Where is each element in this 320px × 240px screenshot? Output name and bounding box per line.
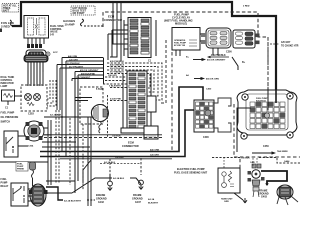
svg-text:G107: G107 [135, 201, 142, 204]
svg-text:OIL PRESSURE: OIL PRESSURE [1, 116, 19, 119]
svg-text:SWITCH: SWITCH [1, 121, 11, 124]
electric fuel pump sending unit label [174, 168, 208, 174]
thick wire bus2 into junction block left [40, 110, 196, 157]
svg-text:2 RED: 2 RED [1, 25, 11, 29]
horizontal wire junction y117 [44, 114, 70, 119]
relay connector face C2 [233, 30, 260, 48]
svg-text:A2 JA: A2 JA [148, 198, 155, 201]
wire trunk vertical joining rows [103, 58, 105, 85]
coil left [28, 18, 34, 35]
wire diag from C1 down [232, 57, 246, 70]
svg-text:C450: C450 [263, 145, 269, 148]
ECM dashed boundary top [103, 12, 268, 88]
svg-text:10 AMP: 10 AMP [65, 23, 75, 27]
wires into pump motor [70, 98, 92, 118]
lower ECM connector block [121, 71, 156, 133]
svg-text:150 BLK: 150 BLK [115, 157, 124, 159]
fuse GAUGES 10 AMP [63, 19, 103, 27]
dashed harness box mid [80, 87, 103, 124]
wire battery feed thick top [12, 2, 276, 95]
valve connector pins below [28, 38, 44, 44]
svg-text:C400: C400 [203, 136, 209, 139]
relay connector face C1 [201, 28, 232, 54]
svg-text:439 PNK/BLK: 439 PNK/BLK [110, 60, 124, 63]
arrow wire A to right y59 [186, 57, 226, 62]
svg-text:150 BLK: 150 BLK [112, 136, 121, 138]
svg-text:G403: G403 [261, 196, 268, 199]
svg-text:440 ORN/BLK: 440 ORN/BLK [110, 64, 125, 67]
ECM connector upper block [124, 18, 156, 58]
wires from upper ECM block going left/down [108, 2, 128, 61]
engine ground symbol [96, 159, 112, 204]
arrow wire B to right y78 [186, 74, 219, 81]
wires switch to connector [18, 136, 26, 146]
svg-text:917 PPL/WHT: 917 PPL/WHT [69, 66, 84, 68]
svg-text:TAN WIRE: TAN WIRE [277, 150, 288, 153]
diagonal wire top bottom-left [83, 160, 91, 183]
svg-text:G404: G404 [284, 160, 290, 163]
dashed drops into instrument cluster [47, 80, 56, 106]
svg-text:A 439 PNK: A 439 PNK [110, 98, 121, 101]
svg-text:108 GRY: 108 GRY [108, 75, 117, 77]
wires from round connector right [18, 128, 51, 146]
wire sweeping to frame ground [72, 178, 112, 193]
svg-text:CONNECTOR: CONNECTOR [122, 144, 139, 148]
wing bracket bottom right [214, 123, 231, 132]
indicator lamp module box with resistor [2, 90, 15, 110]
fuel pump oil pressure switch text [1, 112, 19, 124]
svg-text:TANK UNIT: TANK UNIT [221, 198, 233, 201]
oil pressure switch box [4, 131, 18, 157]
svg-text:439 PNK/BLK: 439 PNK/BLK [211, 54, 226, 57]
svg-text:MODULE): MODULE) [175, 22, 187, 26]
fuel pump motor pictorial [91, 105, 108, 134]
dashed boundary x166 [160, 40, 166, 103]
round connector assembly mid-left [24, 121, 44, 148]
svg-text:5 TAB: 5 TAB [96, 88, 103, 91]
dashed drops to assembly top [253, 158, 257, 166]
svg-text:416 DK GRN/WHT: 416 DK GRN/WHT [207, 59, 226, 62]
svg-text:465 DK GRN: 465 DK GRN [206, 78, 219, 81]
sending unit box [218, 168, 240, 193]
dashed tank boundary bottom right [234, 104, 300, 180]
wire into module from thick feed [275, 16, 277, 103]
svg-text:C200: C200 [226, 51, 232, 54]
svg-text:440 ORN: 440 ORN [68, 55, 78, 58]
svg-text:OR START: OR START [73, 12, 86, 15]
svg-text:120 GRY: 120 GRY [69, 59, 78, 61]
relay connector blob [29, 184, 48, 206]
svg-text:BLK/WHT: BLK/WHT [148, 203, 159, 205]
svg-text:C400: C400 [206, 88, 212, 91]
svg-text:FUEL PUMP: FUEL PUMP [1, 112, 15, 115]
svg-text:ECM: ECM [128, 141, 134, 145]
dashed bus line mid full width [44, 137, 162, 139]
svg-text:916 PPL/WHT: 916 PPL/WHT [110, 68, 125, 70]
svg-text:BATT: BATT [3, 9, 10, 12]
fuel pump relay box [11, 183, 28, 206]
arrow TAN at module bottom [252, 150, 288, 155]
tank indicator lamp text [1, 76, 15, 88]
dashed harness drop left of lower ECM [107, 95, 109, 137]
coil right [39, 18, 45, 35]
tank selector valve assembly box [24, 16, 64, 39]
svg-text:440 ORN: 440 ORN [150, 149, 160, 152]
dashed labels bottom right corner [212, 157, 300, 168]
prime connector symbol [30, 162, 36, 186]
svg-text:C304: C304 [28, 145, 34, 148]
tank unit ground label [221, 193, 247, 203]
svg-text:2 RED: 2 RED [243, 6, 250, 8]
svg-text:RELAY: RELAY [1, 185, 9, 188]
wire label stack mid-left [57, 58, 103, 157]
dashed wire labels to lower ECM [103, 63, 162, 100]
valve cross middle [35, 18, 38, 35]
junction block C2 center-right [194, 88, 231, 140]
dashed instrument box with gauges [21, 85, 47, 111]
svg-text:917 RED/BLK: 917 RED/BLK [110, 72, 124, 74]
fuel pump prime label [16, 162, 28, 172]
svg-text:120 TAN/WHT: 120 TAN/WHT [76, 76, 91, 79]
svg-text:120 GRY: 120 GRY [281, 42, 291, 44]
gauge circle-x left [25, 94, 32, 101]
small component box right of lower ECM [144, 126, 158, 139]
vertical drops mid column [75, 81, 78, 193]
svg-text:5-R: 5-R [50, 33, 54, 36]
wires relay to blob [28, 189, 32, 201]
svg-text:A2 JA BLK: A2 JA BLK [113, 177, 125, 180]
bulkhead connector C100 [24, 55, 48, 62]
wires from blob to right [46, 181, 95, 203]
frame ground center [132, 158, 143, 204]
wire fusible link squiggle [10, 20, 12, 26]
vertical bus wires left-center dropping [48, 117, 91, 206]
svg-text:FUEL GAGE SENDING UNIT: FUEL GAGE SENDING UNIT [174, 171, 208, 174]
svg-text:150 BLK: 150 BLK [241, 158, 250, 160]
svg-text:TO CHOKE HTR: TO CHOKE HTR [281, 46, 299, 48]
in-tank pump assembly pictorial [248, 164, 265, 197]
edge mark left [0, 29, 2, 33]
svg-text:GRD: GRD [224, 201, 229, 203]
svg-text:AT KEY ON: AT KEY ON [174, 44, 186, 47]
fuel pump relay text [1, 178, 9, 188]
wire from lamp box to dashed box [15, 95, 23, 97]
hot-at-all-times label box top-left [2, 4, 19, 13]
big module connector face bottom right [237, 90, 297, 148]
long dashed boundary vertical mid-right [171, 52, 173, 150]
svg-text:LAMP: LAMP [1, 85, 8, 88]
bottom right connector blob [277, 185, 298, 205]
svg-text:A2 JA BLK/WHT: A2 JA BLK/WHT [64, 200, 81, 203]
frame ground right label [258, 190, 269, 199]
svg-text:30 PNK/BLK: 30 PNK/BLK [67, 63, 80, 65]
svg-text:C203: C203 [28, 113, 34, 116]
splice symbol S217 [46, 52, 59, 56]
fuel pump cycle relay box [172, 28, 200, 51]
wires below valve connector [28, 61, 43, 85]
thick wire bus1 up to junction block top [40, 87, 203, 152]
svg-text:458 BLK/PNK: 458 BLK/PNK [81, 72, 95, 75]
wire label arrow 439 PNK under C1 [207, 54, 229, 58]
thick wires at sender top [261, 171, 287, 185]
svg-text:G102: G102 [98, 201, 105, 204]
wires cycle relay box to C1 [176, 34, 218, 56]
small resistor marks [27, 102, 34, 105]
wing bracket top right [214, 98, 231, 106]
gauge circle-x right [34, 94, 41, 101]
wires below bulkhead connector [28, 62, 43, 86]
hot-in-run label box [71, 6, 95, 15]
svg-text:459 DK GRN/WHT: 459 DK GRN/WHT [80, 69, 99, 72]
svg-text:5 BLK/WHT: 5 BLK/WHT [109, 86, 122, 88]
wire module exit left [237, 108, 251, 152]
valve connector housing C437 [26, 50, 46, 61]
wire label arrows right edge [270, 42, 299, 48]
svg-text:PRIME: PRIME [17, 169, 24, 171]
fuel pump cycle relay label [164, 13, 193, 26]
bottom bus lines extra [0, 142, 90, 162]
svg-text:120 GRY: 120 GRY [150, 155, 159, 157]
svg-text:OPERATES: OPERATES [174, 39, 186, 42]
dashed wire into module top [267, 37, 269, 88]
